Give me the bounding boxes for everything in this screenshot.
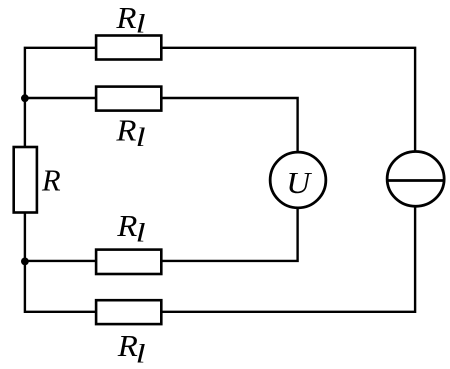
svg-text:l: l bbox=[136, 339, 146, 369]
svg-text:l: l bbox=[136, 218, 146, 248]
svg-text:R: R bbox=[115, 114, 136, 148]
svg-text:U: U bbox=[286, 166, 312, 199]
svg-text:l: l bbox=[136, 122, 146, 152]
svg-text:R: R bbox=[41, 163, 61, 197]
svg-text:R: R bbox=[116, 209, 137, 243]
svg-text:l: l bbox=[136, 9, 146, 39]
svg-text:R: R bbox=[115, 1, 136, 35]
